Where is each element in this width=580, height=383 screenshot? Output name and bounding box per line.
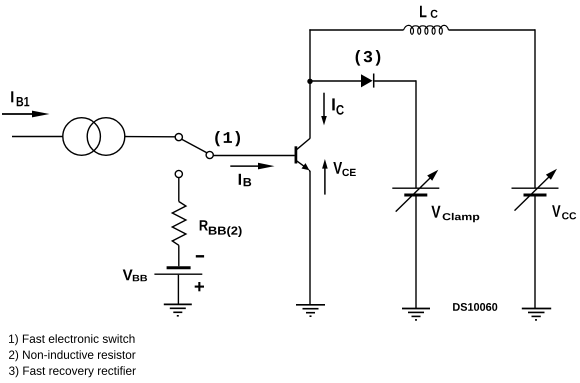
wire clamp branch right <box>375 80 417 82</box>
label VCC <box>552 205 576 219</box>
current arrow IC <box>321 93 327 126</box>
wire VCC to ground <box>534 196 536 309</box>
label IB <box>239 174 252 186</box>
label VClamp <box>431 206 479 223</box>
diode D1 (3) <box>361 74 374 88</box>
transistor Q1 base bar <box>295 146 298 163</box>
label DS10060 <box>453 303 497 311</box>
ground (VCC) <box>522 309 551 320</box>
current arrow IB <box>230 163 274 170</box>
switch S1 terminal B (open, to RBB) <box>175 170 182 177</box>
variability arrow (VClamp) <box>396 170 439 212</box>
footnote 2 <box>9 350 136 361</box>
wire collector up <box>309 29 311 138</box>
resistor RBB(2) <box>172 202 186 246</box>
wire switch terminal B down to resistor <box>178 178 180 202</box>
switch S1 lever <box>182 139 207 153</box>
label (1) <box>215 131 240 146</box>
footnote 3 <box>9 366 136 377</box>
voltage arrow VCE <box>322 159 328 195</box>
label VCE <box>333 162 356 176</box>
label RBB(2) <box>200 220 242 237</box>
label VBB <box>123 270 147 282</box>
wire top left segment <box>309 29 403 31</box>
battery VBB negative plate (short thick) <box>167 266 191 269</box>
wire top right segment <box>449 29 536 31</box>
wire clamp branch left <box>310 80 361 82</box>
ground (emitter) <box>296 305 325 316</box>
label plus (VBB) <box>195 282 204 291</box>
ground (VClamp) <box>402 309 430 320</box>
wire source to switch <box>125 136 175 138</box>
current source IB1 (two-circle source symbol) <box>63 118 125 156</box>
label IC <box>332 98 344 114</box>
battery VClamp positive plate (long thin) <box>392 187 439 189</box>
transistor Q1 emitter lead with arrow <box>297 161 310 172</box>
battery VCC positive plate (long thin) <box>512 187 559 189</box>
label (3) <box>356 50 381 66</box>
wire left input <box>12 136 63 138</box>
node junction dot (collector / clamp branch) <box>307 79 312 84</box>
transistor Q1 collector lead <box>297 138 311 149</box>
current arrow IB1 <box>2 111 50 118</box>
inductor LC <box>404 25 449 34</box>
variability arrow (VCC) <box>515 169 558 211</box>
label IB1 <box>11 91 29 106</box>
battery VCC negative plate (short thick) <box>524 194 547 197</box>
footnote 1 <box>9 334 135 345</box>
wire VCC vertical <box>534 29 536 188</box>
label LC <box>420 6 438 18</box>
wire resistor to battery <box>178 245 180 266</box>
battery VClamp negative plate (short thick) <box>404 194 427 197</box>
ground (VBB) <box>164 304 192 315</box>
wire battery to ground <box>177 275 179 304</box>
wire emitter down <box>309 171 311 305</box>
wire VClamp to ground <box>415 196 417 309</box>
label minus (VBB) <box>196 255 204 257</box>
wire switch to base <box>213 155 294 157</box>
switch S1 terminal A <box>175 134 182 141</box>
wire clamp vertical <box>415 80 417 188</box>
switch S1 common terminal <box>206 151 213 158</box>
battery VBB positive plate (long thin) <box>154 273 202 275</box>
